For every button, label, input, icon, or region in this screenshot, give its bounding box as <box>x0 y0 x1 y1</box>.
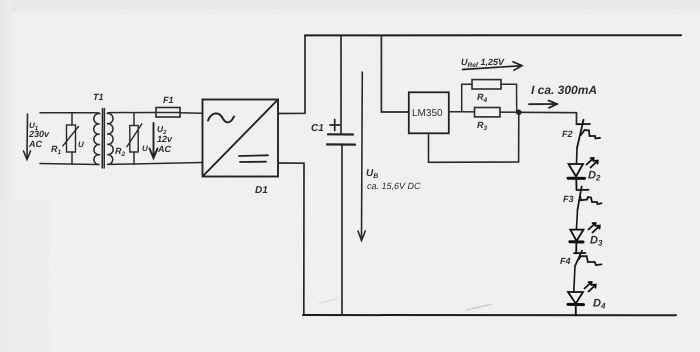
resistor R3 <box>462 108 519 117</box>
node U2 arrow 12V <box>150 123 158 158</box>
wire F3 to D3 <box>576 210 577 230</box>
wire junction to LED chain <box>519 112 577 124</box>
svg-text:F2: F2 <box>562 129 573 139</box>
svg-text:ca. 15,6V DC: ca. 15,6V DC <box>367 181 421 191</box>
svg-text:F3: F3 <box>563 194 574 204</box>
svg-text:230v: 230v <box>28 129 50 139</box>
wire primary bottom <box>40 164 97 165</box>
svg-text:12v: 12v <box>157 134 173 144</box>
wire F2 to D2 <box>576 148 579 164</box>
svg-text:D1: D1 <box>255 185 268 196</box>
wire split up <box>461 84 463 112</box>
faint smudge left of C1 bottom <box>318 298 338 304</box>
LED D4 <box>568 282 596 315</box>
transformer T1 <box>94 109 113 169</box>
LED D3 <box>570 223 600 253</box>
wire rail to LM350 <box>381 35 408 112</box>
wire D1 out top to rail <box>278 35 305 113</box>
wire F1 to D1 <box>180 112 202 115</box>
resistor R4 <box>462 80 517 112</box>
wire LM350 out <box>449 111 462 113</box>
wire bottom rail <box>303 314 676 316</box>
fuse F2 <box>577 120 601 148</box>
wire secondary bottom <box>111 163 202 165</box>
resistor R1 varistor <box>63 113 79 164</box>
wire ADJ feedback loop <box>429 112 519 162</box>
svg-text:T1: T1 <box>93 92 104 102</box>
svg-text:F1: F1 <box>163 95 174 105</box>
wire top rail <box>305 34 681 36</box>
node U1 arrow 230V <box>24 114 31 160</box>
svg-text:AC: AC <box>157 144 171 154</box>
svg-text:U: U <box>142 144 148 153</box>
bridge rectifier D1 <box>203 100 279 177</box>
faint pencil smudge on bottom rail <box>466 304 492 310</box>
junction node <box>516 110 522 116</box>
fuse F3 <box>577 187 602 211</box>
LED D2 <box>568 158 598 190</box>
svg-text:C1: C1 <box>311 123 324 134</box>
svg-text:LM350: LM350 <box>412 108 443 119</box>
node UB arrow <box>358 72 365 241</box>
fuse F4 <box>574 251 602 266</box>
svg-text:F4: F4 <box>560 256 571 266</box>
resistor R2 varistor <box>127 113 142 165</box>
wire F4 to D4 <box>574 266 575 292</box>
svg-text:AC: AC <box>28 139 42 149</box>
regulator U1 LM350 <box>409 92 449 133</box>
fuse F1 <box>156 108 180 118</box>
wire D1 out bottom down <box>278 163 304 315</box>
wire secondary top <box>111 112 156 114</box>
node Uref arrow <box>463 62 522 70</box>
capacitor C1 <box>327 35 355 315</box>
svg-text:I ca. 300mA: I ca. 300mA <box>531 83 597 97</box>
node I arrow <box>529 101 557 108</box>
wire primary top <box>40 112 96 114</box>
svg-text:U: U <box>78 140 84 149</box>
